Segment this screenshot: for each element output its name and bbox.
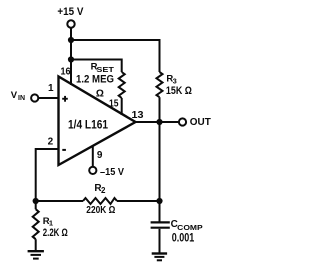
svg-text:2: 2	[101, 186, 106, 195]
value 15K ohm	[166, 85, 192, 97]
svg-text:2.2K Ω: 2.2K Ω	[43, 227, 68, 239]
svg-text:9: 9	[97, 150, 103, 161]
label CCOMP	[171, 219, 203, 232]
op-amp U1 1/4 L161	[59, 77, 136, 166]
value 220K ohm	[86, 204, 115, 216]
wire R3 bottom to output node	[159, 97, 161, 122]
svg-text:1.2 MEG: 1.2 MEG	[76, 73, 114, 85]
svg-text:1: 1	[48, 83, 54, 94]
junction dot at +15V / R3 branch	[68, 37, 74, 43]
junction dot at output / R3 node	[156, 119, 162, 125]
value 2.2K ohm	[43, 227, 68, 239]
value 0.001	[172, 230, 195, 244]
wire op-amp pin 9 to -15V	[92, 146, 94, 167]
wire R2 to output branch node	[117, 200, 160, 202]
svg-text:V: V	[11, 90, 18, 101]
capacitor CCOMP 0.001	[151, 222, 170, 227]
svg-text:IN: IN	[18, 95, 25, 102]
wire branch to RSET top	[71, 60, 122, 73]
wire op-amp output to OUT	[136, 121, 180, 123]
node OUT terminal	[179, 118, 186, 125]
label VIN	[11, 90, 25, 102]
pin 9	[97, 150, 103, 161]
wire from +15V down to op-amp pin 16	[70, 29, 72, 86]
svg-text:+15 V: +15 V	[57, 6, 84, 18]
wire feedback node to R2	[36, 200, 83, 202]
junction dot at R2 / CCOMP node	[156, 198, 162, 204]
resistor RSET 1.2 MEG	[119, 72, 125, 98]
wire CCOMP bottom to ground	[159, 229, 161, 253]
svg-text:1/4 L161: 1/4 L161	[68, 118, 108, 132]
wire R1 bottom to ground	[35, 239, 37, 250]
op-amp - input symbol	[62, 149, 66, 151]
ground (right, below CCOMP)	[152, 254, 167, 261]
node VIN terminal	[31, 94, 38, 101]
pin 16	[61, 67, 71, 78]
svg-text:0.001: 0.001	[172, 230, 195, 244]
op-amp device label 1/4 L161	[68, 118, 108, 132]
label R2	[94, 183, 106, 195]
svg-text:13: 13	[132, 110, 144, 121]
pin 1	[48, 83, 54, 94]
op-amp + input symbol	[62, 98, 68, 100]
ground (left, below R1)	[28, 251, 44, 258]
svg-text:220K Ω: 220K Ω	[86, 204, 115, 216]
RSET ohm symbol	[96, 88, 104, 99]
wire RSET bottom to op-amp pin 15	[121, 98, 123, 115]
svg-text:16: 16	[61, 67, 71, 78]
+15V supply terminal	[67, 20, 74, 27]
label R3	[166, 74, 176, 86]
label OUT	[190, 117, 211, 128]
svg-text:OUT: OUT	[190, 117, 211, 128]
resistor R3 15K	[157, 72, 163, 97]
pin 13	[132, 110, 144, 121]
junction dot at +15V / RSET branch	[68, 56, 74, 62]
wire branch to R3 top	[71, 40, 160, 72]
value 1.2 MEG	[76, 73, 114, 85]
resistor R1 2.2K	[33, 209, 39, 239]
svg-text:2: 2	[48, 136, 54, 147]
pin 2	[48, 136, 54, 147]
svg-text:15K Ω: 15K Ω	[166, 85, 192, 97]
pin 15	[109, 98, 119, 109]
junction dot at feedback node	[33, 198, 39, 204]
svg-text:Ω: Ω	[96, 88, 104, 99]
-15V supply terminal	[89, 167, 96, 174]
svg-text:15: 15	[109, 98, 119, 109]
wire VIN to op-amp pin 1	[38, 97, 58, 99]
label -15 V	[100, 167, 124, 178]
label R1	[43, 216, 53, 228]
label RSET	[91, 61, 115, 74]
label +15 V	[57, 6, 84, 18]
svg-text:–15 V: –15 V	[100, 167, 124, 178]
wire op-amp pin 2 to feedback node	[36, 149, 59, 209]
resistor R2 220K	[83, 198, 117, 204]
wire output node down to R2/CCOMP	[159, 122, 161, 222]
